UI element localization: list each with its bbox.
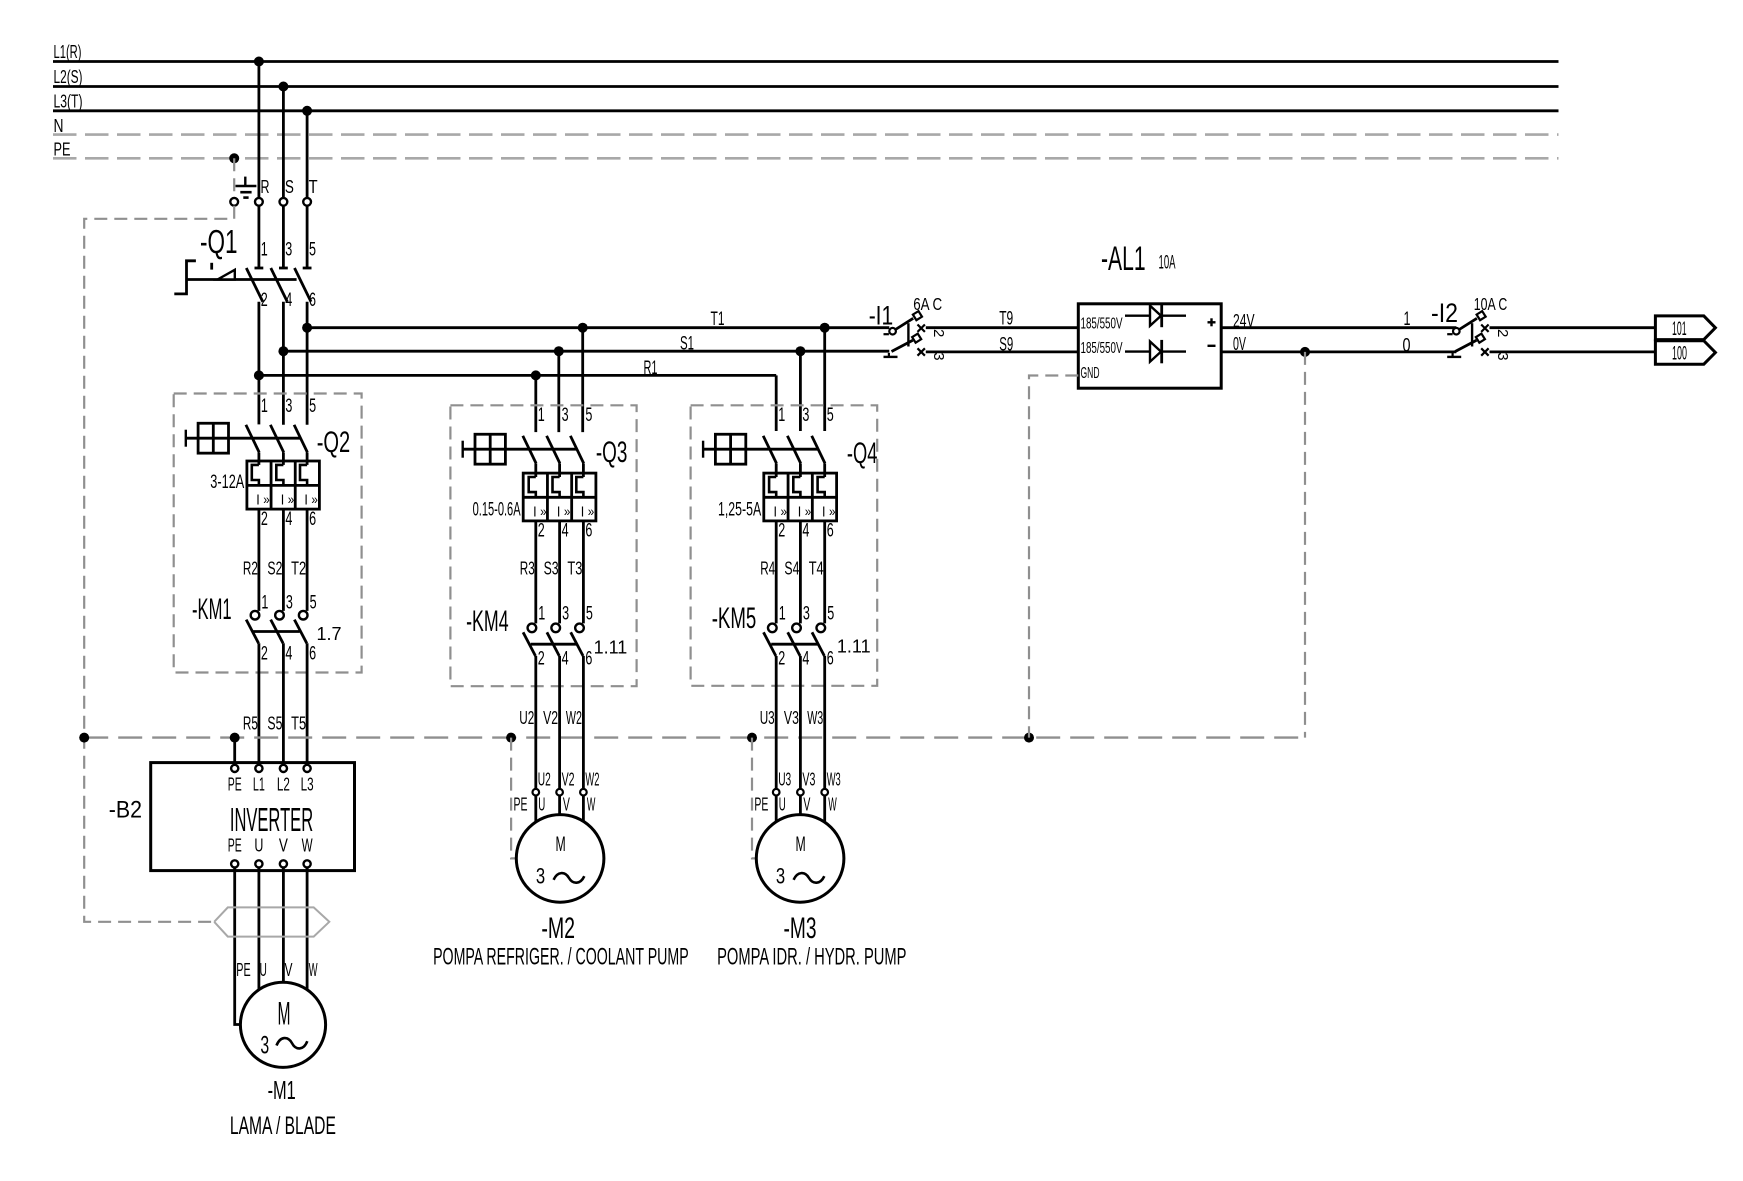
wire U3 xyxy=(775,656,778,789)
svg-text:4: 4 xyxy=(285,509,292,530)
wire S drop xyxy=(282,87,285,199)
svg-text:R1: R1 xyxy=(644,358,658,379)
svg-text:6: 6 xyxy=(309,509,316,530)
svg-text:M: M xyxy=(556,833,566,856)
svg-text:5: 5 xyxy=(309,396,316,417)
svg-text:V3: V3 xyxy=(802,769,815,790)
svg-text:W: W xyxy=(587,795,596,815)
svg-text:5: 5 xyxy=(585,405,592,426)
svg-text:1: 1 xyxy=(779,604,786,625)
svg-text:I: I xyxy=(256,491,260,508)
svg-text:I: I xyxy=(281,491,285,508)
wire R3 xyxy=(534,521,537,624)
svg-text:»: » xyxy=(588,503,595,519)
wire Q2 drop 1 xyxy=(257,375,260,424)
junction T1 start xyxy=(302,323,312,333)
enclosure Q2/KM1 dashed box xyxy=(174,394,362,673)
wire S to S1 and Q2 pole3 xyxy=(282,302,285,425)
svg-text:2: 2 xyxy=(930,329,947,337)
svg-text:V2: V2 xyxy=(562,769,575,790)
svg-text:M: M xyxy=(796,833,806,856)
svg-text:T9: T9 xyxy=(999,308,1013,329)
svg-text:0V: 0V xyxy=(1233,334,1246,354)
svg-text:U: U xyxy=(779,795,786,815)
junction L1/R xyxy=(254,57,264,67)
svg-text:4: 4 xyxy=(285,644,292,665)
node arrow 100 xyxy=(1655,341,1715,365)
svg-text:S: S xyxy=(285,177,294,197)
wire Q4 drop 5 xyxy=(823,328,826,431)
svg-text:POMPA IDR. / HYDR. PUMP: POMPA IDR. / HYDR. PUMP xyxy=(717,944,906,971)
svg-text:-I1: -I1 xyxy=(869,301,894,331)
svg-text:»: » xyxy=(829,503,836,519)
wire S5 xyxy=(282,643,285,765)
junction PE/M3 xyxy=(747,733,757,743)
svg-text:L3(T): L3(T) xyxy=(54,92,83,112)
bus L1(R) xyxy=(53,60,1559,63)
svg-text:I: I xyxy=(304,491,308,508)
svg-text:W2: W2 xyxy=(566,707,582,728)
svg-text:6: 6 xyxy=(827,521,834,542)
wire T drop xyxy=(306,111,309,198)
svg-text:2: 2 xyxy=(778,521,785,542)
svg-text:2: 2 xyxy=(261,644,268,665)
wire bus T1 xyxy=(307,326,889,329)
svg-text:1.11: 1.11 xyxy=(837,637,871,657)
svg-text:T5: T5 xyxy=(291,713,306,734)
svg-text:3: 3 xyxy=(562,405,569,426)
wire S3 xyxy=(558,521,561,624)
PE terminal xyxy=(230,198,238,206)
svg-text:5: 5 xyxy=(309,240,316,261)
svg-text:W: W xyxy=(828,795,837,815)
svg-text:4: 4 xyxy=(802,521,809,542)
svg-text:L3: L3 xyxy=(301,775,314,795)
svg-text:T3: T3 xyxy=(567,558,582,579)
svg-text:S4: S4 xyxy=(784,558,799,579)
svg-text:-Q4: -Q4 xyxy=(847,437,878,470)
svg-text:L1(R): L1(R) xyxy=(54,42,82,62)
svg-text:3: 3 xyxy=(285,396,292,417)
svg-text:I: I xyxy=(774,503,778,520)
wire inverter U out xyxy=(257,868,260,990)
svg-text:»: » xyxy=(263,491,270,507)
wire W3 xyxy=(823,656,826,789)
wire bus R1 xyxy=(259,374,776,377)
svg-text:1,25-5A: 1,25-5A xyxy=(718,500,761,521)
svg-text:0.15-0.6A: 0.15-0.6A xyxy=(473,500,521,521)
junction T1/Q3 xyxy=(578,323,588,333)
svg-text:-Q2: -Q2 xyxy=(317,426,351,459)
junction S1/Q4 xyxy=(795,346,805,356)
svg-text:N: N xyxy=(54,116,64,136)
svg-text:S2: S2 xyxy=(267,558,282,579)
svg-text:-M1: -M1 xyxy=(268,1075,296,1105)
switch I1 xyxy=(869,294,947,361)
motor breaker Q3 xyxy=(463,405,628,542)
svg-text:-M3: -M3 xyxy=(784,912,817,945)
junction R1/Q3 xyxy=(531,370,541,380)
svg-text:I: I xyxy=(822,503,826,520)
svg-text:3-12A: 3-12A xyxy=(210,472,244,493)
svg-text:10A: 10A xyxy=(1159,253,1176,274)
wire R5 xyxy=(257,643,260,765)
PE distribution dashed bus xyxy=(84,736,1305,738)
svg-text:3: 3 xyxy=(803,604,810,625)
junction T1/Q4 xyxy=(820,323,830,333)
svg-text:2: 2 xyxy=(538,521,545,542)
motor breaker Q4 xyxy=(703,405,877,542)
breaker Q1 xyxy=(174,223,316,311)
motor M3 xyxy=(756,815,844,903)
svg-text:101: 101 xyxy=(1672,318,1687,340)
motor breaker Q2 xyxy=(186,396,350,530)
svg-text:V2: V2 xyxy=(543,707,558,728)
svg-text:5: 5 xyxy=(310,593,317,614)
svg-text:I: I xyxy=(581,503,585,520)
svg-text:1: 1 xyxy=(261,593,268,614)
contactor KM4 xyxy=(466,604,627,670)
svg-text:6: 6 xyxy=(827,649,834,670)
svg-text:V: V xyxy=(279,836,288,856)
svg-text:R3: R3 xyxy=(520,558,535,579)
svg-text:2: 2 xyxy=(261,509,268,530)
bus PE xyxy=(53,157,1559,160)
wire V3 xyxy=(799,656,802,789)
junction L3/T xyxy=(302,106,312,116)
PE dashed drop M2 xyxy=(511,738,516,859)
wire bus S1 xyxy=(283,350,889,353)
svg-text:-Q3: -Q3 xyxy=(596,436,628,469)
wire inverter W out xyxy=(306,868,309,990)
svg-text:T2: T2 xyxy=(291,558,306,579)
svg-text:PE: PE xyxy=(514,795,528,815)
svg-text:»: » xyxy=(540,503,547,519)
svg-text:2: 2 xyxy=(1494,329,1511,337)
motor M1 xyxy=(240,982,325,1067)
junction PE tap xyxy=(229,153,239,163)
svg-text:V: V xyxy=(803,795,810,815)
wire inverter PE out xyxy=(235,868,241,1025)
svg-text:S9: S9 xyxy=(999,335,1013,356)
wire S9 xyxy=(926,350,1079,353)
svg-text:U: U xyxy=(538,795,545,815)
wire R drop xyxy=(257,62,260,199)
PE dashed drop M3 xyxy=(752,738,756,859)
junction 0V xyxy=(1300,347,1310,357)
power supply AL1 xyxy=(1078,240,1221,388)
enclosure Q4/KM5 dashed box xyxy=(691,405,878,686)
svg-text:W2: W2 xyxy=(585,769,599,790)
svg-text:3: 3 xyxy=(260,1031,269,1059)
wire to node 100 xyxy=(1490,350,1656,353)
terminal T xyxy=(303,198,311,206)
wire inverter V out xyxy=(282,868,285,983)
junction S1/Q3 xyxy=(554,346,564,356)
node arrow 101 xyxy=(1655,316,1715,340)
svg-text:-KM4: -KM4 xyxy=(466,605,509,638)
bus L2(S) xyxy=(53,85,1559,88)
terminal S xyxy=(280,198,288,206)
svg-text:PE: PE xyxy=(236,960,250,980)
svg-text:3: 3 xyxy=(562,604,569,625)
svg-text:GND: GND xyxy=(1081,365,1100,382)
wire Q4 drop 1 xyxy=(775,375,778,431)
svg-text:-KM1: -KM1 xyxy=(192,593,232,626)
wire Q3 drop 1 xyxy=(534,375,537,432)
svg-text:R: R xyxy=(261,177,270,197)
svg-text:U2: U2 xyxy=(519,707,534,728)
wire W2 xyxy=(582,656,585,789)
svg-text:INVERTER: INVERTER xyxy=(230,801,313,838)
svg-text:0: 0 xyxy=(1403,336,1411,357)
junction R1 start xyxy=(254,370,264,380)
svg-text:U3: U3 xyxy=(760,707,775,728)
svg-text:1.7: 1.7 xyxy=(317,624,342,644)
svg-text:24V: 24V xyxy=(1233,311,1255,331)
svg-text:»: » xyxy=(288,491,295,507)
wire U2 xyxy=(534,656,537,789)
ground symbol xyxy=(244,177,246,186)
svg-text:U: U xyxy=(254,836,263,856)
enclosure Q3/KM4 dashed box xyxy=(450,405,636,686)
contactor KM1 xyxy=(192,593,342,665)
svg-text:1: 1 xyxy=(1404,309,1411,330)
wire 0V xyxy=(1221,350,1456,353)
svg-text:2: 2 xyxy=(538,649,545,670)
0V dashed drop xyxy=(1304,352,1306,738)
wire T9 xyxy=(926,326,1079,329)
svg-text:U3: U3 xyxy=(778,769,791,790)
junction L2/S xyxy=(278,82,288,92)
wire Q4 drop 3 xyxy=(799,351,802,431)
bus L3(T) xyxy=(53,109,1559,112)
switch I2 xyxy=(1431,294,1511,361)
svg-text:W: W xyxy=(309,960,318,980)
svg-text:V: V xyxy=(285,960,293,980)
wire T to T1 and Q2 pole5 xyxy=(306,302,309,425)
svg-text:S5: S5 xyxy=(267,713,282,734)
PE dashed route to B2 xyxy=(84,206,234,922)
svg-text:L1: L1 xyxy=(253,775,265,795)
wire Q3 drop 3 xyxy=(557,351,560,432)
PE tap dashed drop xyxy=(233,158,235,198)
wire 24V xyxy=(1221,326,1456,329)
svg-text:W3: W3 xyxy=(807,707,823,728)
junction PE/B2 xyxy=(79,733,89,743)
svg-text:R5: R5 xyxy=(243,713,258,734)
svg-text:V3: V3 xyxy=(784,707,799,728)
svg-text:T1: T1 xyxy=(711,309,725,330)
minus terminal xyxy=(1208,345,1216,347)
svg-text:3: 3 xyxy=(536,864,545,889)
wire R to R1 xyxy=(257,302,260,376)
svg-text:PE: PE xyxy=(228,836,242,856)
plus terminal xyxy=(1208,321,1216,323)
svg-text:3: 3 xyxy=(802,405,809,426)
svg-text:»: » xyxy=(781,503,788,519)
svg-text:W: W xyxy=(302,836,313,856)
wire R4 xyxy=(775,521,778,624)
wire to node 101 xyxy=(1490,326,1656,329)
wire T3 xyxy=(582,521,585,624)
svg-text:R2: R2 xyxy=(243,558,258,579)
wire M2 leads xyxy=(534,796,537,823)
svg-text:10A C: 10A C xyxy=(1474,294,1508,314)
wire S4 xyxy=(799,521,802,624)
svg-text:I: I xyxy=(557,503,561,520)
svg-text:PE: PE xyxy=(754,795,768,815)
svg-text:1: 1 xyxy=(538,405,545,426)
svg-text:4: 4 xyxy=(562,521,569,542)
svg-text:-B2: -B2 xyxy=(109,797,142,824)
wire V2 xyxy=(558,656,561,789)
svg-text:PE: PE xyxy=(54,140,71,160)
svg-text:L2: L2 xyxy=(277,775,290,795)
svg-text:W3: W3 xyxy=(827,769,841,790)
svg-text:-M2: -M2 xyxy=(541,912,575,945)
svg-text:100: 100 xyxy=(1672,343,1687,365)
svg-text:-KM5: -KM5 xyxy=(712,602,757,635)
wire S2 xyxy=(282,509,285,611)
svg-text:LAMA / BLADE: LAMA / BLADE xyxy=(230,1112,336,1140)
svg-text:»: » xyxy=(564,503,571,519)
motor M2 xyxy=(516,815,604,903)
svg-text:M: M xyxy=(278,995,291,1031)
wire T2 xyxy=(306,509,309,611)
svg-text:185/550V: 185/550V xyxy=(1081,340,1123,357)
svg-text:U2: U2 xyxy=(538,769,551,790)
svg-text:4: 4 xyxy=(562,649,569,670)
svg-text:1.11: 1.11 xyxy=(594,638,628,658)
wire M3 leads xyxy=(775,796,778,823)
junction PE/M2 xyxy=(506,733,516,743)
wire T5 xyxy=(306,643,309,765)
junction S1 start xyxy=(278,346,288,356)
wire T4 xyxy=(823,521,826,624)
svg-text:I: I xyxy=(533,503,537,520)
svg-text:2: 2 xyxy=(778,649,785,670)
contactor KM5 xyxy=(712,602,871,670)
terminal R xyxy=(255,198,263,206)
GND dashed route xyxy=(1029,376,1078,738)
svg-text:»: » xyxy=(311,491,318,507)
svg-text:S1: S1 xyxy=(680,334,694,355)
svg-text:3: 3 xyxy=(930,352,947,360)
wire R2 xyxy=(257,509,260,611)
svg-text:6A C: 6A C xyxy=(913,294,942,314)
svg-text:4: 4 xyxy=(802,649,809,670)
svg-text:»: » xyxy=(805,503,812,519)
svg-text:185/550V: 185/550V xyxy=(1081,316,1123,333)
svg-text:-Q1: -Q1 xyxy=(200,223,238,260)
svg-text:1: 1 xyxy=(261,396,268,417)
svg-text:S3: S3 xyxy=(544,558,559,579)
inverter B2 xyxy=(109,763,355,871)
svg-text:3: 3 xyxy=(285,240,292,261)
svg-text:-I2: -I2 xyxy=(1431,298,1458,328)
svg-text:6: 6 xyxy=(309,644,316,665)
svg-text:3: 3 xyxy=(1494,352,1511,360)
svg-text:T4: T4 xyxy=(809,558,824,579)
junction PE/GND xyxy=(1024,733,1034,743)
wire PE to inverter xyxy=(233,738,236,765)
diode D2 xyxy=(1125,350,1150,352)
svg-text:3: 3 xyxy=(776,864,785,889)
shield symbol xyxy=(214,907,329,936)
svg-text:5: 5 xyxy=(586,604,593,625)
junction PE/inverter xyxy=(230,733,240,743)
bus N xyxy=(53,133,1559,136)
svg-text:1: 1 xyxy=(538,604,545,625)
svg-text:1: 1 xyxy=(778,405,785,426)
svg-text:POMPA REFRIGER. / COOLANT PUMP: POMPA REFRIGER. / COOLANT PUMP xyxy=(433,944,689,971)
svg-text:5: 5 xyxy=(827,405,834,426)
svg-text:-AL1: -AL1 xyxy=(1101,240,1146,278)
svg-text:L2(S): L2(S) xyxy=(54,67,83,87)
diode D1 xyxy=(1125,315,1150,317)
svg-text:PE: PE xyxy=(228,775,242,795)
svg-text:U: U xyxy=(260,960,267,980)
svg-text:3: 3 xyxy=(286,593,293,614)
wire Q3 drop 5 xyxy=(581,328,584,432)
svg-text:R4: R4 xyxy=(760,558,775,579)
svg-text:6: 6 xyxy=(585,649,592,670)
svg-text:6: 6 xyxy=(585,521,592,542)
svg-text:1: 1 xyxy=(261,240,268,261)
svg-text:I: I xyxy=(798,503,802,520)
svg-text:T: T xyxy=(309,177,318,197)
svg-text:5: 5 xyxy=(827,604,834,625)
svg-text:V: V xyxy=(563,795,570,815)
